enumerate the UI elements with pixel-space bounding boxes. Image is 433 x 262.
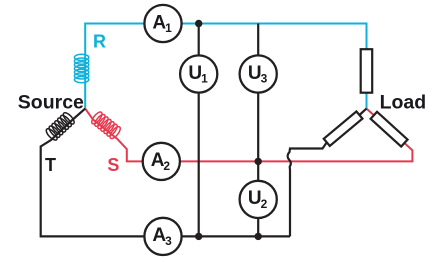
junction dot middle (U3/U2 branch to S wire) <box>255 158 262 165</box>
wire: R phase cyan from source star up, across top, down to load resistor <box>85 24 366 109</box>
wire: black stub load star to left resistor <box>359 109 366 115</box>
voltmeter U2 <box>240 181 277 218</box>
ammeter A1 <box>144 5 181 42</box>
inductor source coil R (cyan, vertical) <box>74 54 88 82</box>
inductor source coil T (black, diagonal down-left) <box>44 111 75 142</box>
voltmeter U3 <box>240 55 277 92</box>
wire: U3/U2 voltmeter branch vertical <box>257 24 259 237</box>
svg-text:Load: Load <box>380 92 427 114</box>
resistor load S (rotated rectangle, right diagonal) <box>371 112 408 147</box>
ammeter A2 <box>143 143 180 180</box>
svg-text:S: S <box>107 155 119 175</box>
svg-text:Source: Source <box>18 92 84 114</box>
wire: T phase black from source star through coil down and along bottom <box>41 109 290 237</box>
inductor source coil S (red, diagonal down-right) <box>90 110 122 140</box>
voltmeter U1 <box>180 55 217 92</box>
wire: black load return with hop over red wire <box>288 142 327 236</box>
junction dot top (U1 branch to R wire) <box>195 20 202 27</box>
wire: U1 voltmeter branch vertical <box>198 24 200 237</box>
resistor load R (vertical rectangle) <box>361 49 373 92</box>
wire: S phase red from source star through coil path to A2 and around to load <box>85 109 412 162</box>
wire: red stub load star to right resistor <box>367 109 374 116</box>
junction dot bottom right (U2 branch to T wire) <box>255 233 262 240</box>
resistor load T (rotated rectangle, left diagonal) <box>324 111 363 146</box>
svg-text:R: R <box>93 32 106 52</box>
junction dot bottom left (U1 branch to T wire) <box>195 233 202 240</box>
svg-text:T: T <box>45 155 56 175</box>
ammeter A3 <box>144 218 181 255</box>
